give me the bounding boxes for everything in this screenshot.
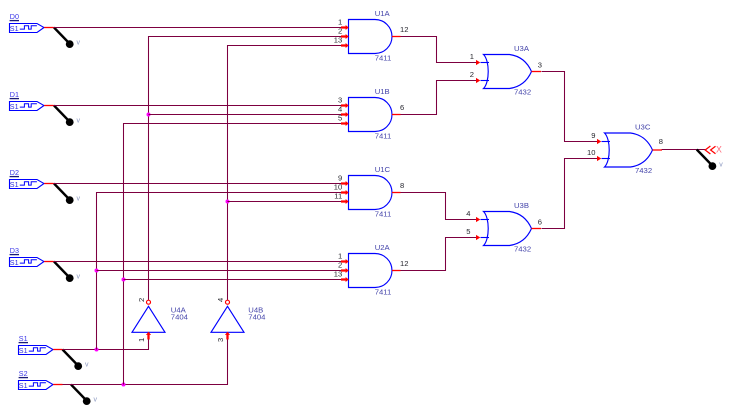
pin stub of D3 (44, 261, 53, 263)
svg-text:12: 12 (400, 259, 408, 268)
svg-text:4: 4 (466, 209, 470, 218)
pin stub of D1 (44, 105, 53, 107)
U1A output pin 12 stub (392, 25, 408, 36)
svg-text:2: 2 (470, 70, 474, 79)
voltage probe v on S1 (63, 350, 90, 371)
svg-text:U3A: U3A (514, 44, 530, 53)
wire U2A output 12 to U3B pin 5 (401, 238, 478, 271)
U1C input pin 11 (334, 192, 348, 205)
U3C input pin 9 lead (602, 141, 611, 143)
svg-text:v: v (85, 362, 89, 369)
svg-text:v: v (77, 274, 81, 281)
svg-text:13: 13 (334, 36, 342, 45)
U3C input pin 10 arrow (587, 148, 601, 161)
wire U3B output 6 to U3C pin 10 (542, 159, 598, 229)
node S2 junction to U2A pin 13 (122, 278, 126, 282)
U1A input pin 2 (338, 27, 349, 40)
U1B output pin 6 stub (392, 103, 404, 114)
pin stub of D2 (44, 183, 53, 185)
svg-text:1: 1 (338, 18, 342, 27)
wire D1 to U1B pin 3 (54, 105, 343, 107)
U1C output pin 8 stub (392, 181, 404, 192)
wire U1A output 12 to U3A pin 1 (401, 37, 478, 63)
svg-text:10: 10 (334, 183, 342, 192)
inverter U4B (7404) body, pointing up (211, 306, 244, 332)
logic source D1 (S1 signal generator symbol) (10, 102, 45, 111)
voltage probe v on X output (697, 150, 724, 171)
svg-text:U3C: U3C (635, 122, 651, 131)
svg-text:2: 2 (338, 261, 342, 270)
U3C output pin 8 stub (653, 137, 664, 150)
svg-text:D1: D1 (10, 90, 19, 99)
svg-text:v: v (77, 196, 81, 203)
svg-text:9: 9 (338, 174, 342, 183)
svg-text:7432: 7432 (635, 166, 652, 175)
U1B input pin 3 (338, 96, 349, 109)
AND gate U1B (7411) body (349, 98, 393, 132)
voltage probe v on D3 (54, 262, 81, 283)
wire S2 vertical riser to U1B pin 5 (124, 124, 343, 385)
svg-text:8: 8 (659, 137, 663, 146)
wire U1C output 8 to U3B pin 4 (401, 193, 478, 220)
svg-text:12: 12 (400, 25, 408, 34)
U3B input pin 5 arrow (466, 227, 480, 240)
svg-text:S1: S1 (19, 334, 28, 343)
svg-text:8: 8 (400, 181, 404, 190)
svg-text:7411: 7411 (375, 287, 392, 296)
wire D2 to U1C pin 9 (54, 183, 343, 185)
svg-text:v: v (719, 162, 723, 169)
svg-text:v: v (77, 40, 81, 47)
svg-text:7404: 7404 (171, 312, 189, 321)
U4B input pin 3 arrow (216, 332, 230, 342)
svg-text:2: 2 (338, 27, 342, 36)
svg-text:7411: 7411 (375, 131, 392, 140)
wire U1B output 6 to U3A pin 2 (401, 81, 478, 115)
AND gate U2A (7411) body (349, 254, 392, 288)
svg-text:11: 11 (334, 192, 342, 201)
wire S1-bar from U4A output up to U1A pin 2 (149, 37, 343, 301)
U2A input pin 13 (334, 270, 349, 283)
wire D0 to U1A pin 1 (54, 27, 343, 29)
U3B output pin 6 stub (532, 218, 543, 229)
svg-text:1: 1 (470, 52, 474, 61)
U3C input pin 10 lead (602, 158, 611, 160)
inverter U4A (7404) body, pointing up (132, 306, 165, 332)
wire S1 branch to U2A pin 2 (97, 270, 343, 272)
U3B input pin 4 lead (481, 219, 490, 221)
node S1 junction to U2A pin 2 (95, 269, 99, 273)
svg-text:v: v (94, 397, 98, 404)
U3A output pin 3 stub (532, 61, 543, 72)
svg-text:U3B: U3B (514, 201, 529, 210)
U3A input pin 2 lead (481, 80, 490, 82)
U3C input pin 9 arrow (591, 131, 601, 144)
logic source D0 (S1 signal generator symbol) (10, 24, 45, 33)
U4A output bubble (147, 300, 151, 304)
AND gate U1C (7411) body (349, 176, 393, 210)
AND gate U1A (7411) body (349, 20, 392, 54)
U1B input pin 4 (338, 105, 349, 118)
wire U3A output 3 to U3C pin 9 (542, 72, 598, 142)
pin stub of S2 (53, 384, 62, 386)
node S1 junction on S1 wire (95, 348, 99, 352)
svg-text:v: v (77, 118, 81, 125)
wire S1 horizontal to U4A input (63, 340, 149, 350)
svg-text:6: 6 (538, 218, 542, 227)
U2A output pin 12 stub (392, 259, 408, 270)
voltage probe v on S2 (71, 385, 98, 406)
pin stub of D0 (44, 27, 53, 29)
svg-text:2: 2 (137, 298, 146, 302)
svg-text:S1: S1 (19, 346, 28, 355)
U3A input pin 2 arrow (470, 70, 481, 83)
svg-text:5: 5 (338, 114, 342, 123)
svg-text:S2: S2 (19, 369, 28, 378)
U3A input pin 1 lead (481, 62, 490, 64)
svg-text:3: 3 (338, 96, 342, 105)
svg-text:U1A: U1A (375, 9, 391, 18)
svg-text:D2: D2 (10, 168, 19, 177)
U1C input pin 9 (338, 174, 349, 187)
voltage probe v on D0 (54, 28, 81, 48)
U1A input pin 13 (334, 36, 349, 49)
svg-text:D0: D0 (10, 12, 19, 21)
U4A input pin 1 arrow (137, 332, 151, 342)
svg-text:S1: S1 (10, 102, 19, 111)
U3A input pin 1 arrow (470, 52, 481, 65)
svg-text:1: 1 (338, 252, 342, 261)
svg-text:3: 3 (538, 61, 542, 70)
wire S2 branch to U2A pin 13 (124, 279, 343, 281)
svg-text:3: 3 (216, 338, 225, 342)
U1C input pin 10 (334, 183, 349, 196)
svg-text:S1: S1 (10, 24, 19, 33)
svg-text:U1C: U1C (375, 165, 391, 174)
svg-text:7411: 7411 (375, 209, 392, 218)
svg-text:S1: S1 (10, 180, 19, 189)
svg-text:6: 6 (400, 103, 404, 112)
svg-text:4: 4 (216, 298, 225, 302)
output connector chevron 2 (711, 146, 716, 154)
svg-text:S1: S1 (19, 381, 28, 390)
U3B input pin 4 arrow (466, 209, 480, 222)
node S2 junction on S2 wire (122, 383, 126, 387)
svg-text:10: 10 (587, 148, 595, 157)
OR gate U3C (7432) body (605, 133, 653, 167)
OR gate U3A (7432) body (484, 55, 532, 89)
logic source S2 (S1 signal generator symbol) (19, 381, 54, 390)
svg-text:4: 4 (338, 105, 342, 114)
pin stub of S1 (53, 349, 62, 351)
wire S1-bar branch to U1B pin 4 (149, 114, 343, 116)
OR gate U3B (7432) body (484, 212, 532, 246)
voltage probe v on D2 (54, 184, 81, 205)
logic source D2 (S1 signal generator symbol) (10, 180, 45, 189)
logic source D3 (S1 signal generator symbol) (10, 258, 45, 267)
wire U3C output 8 to connector X (662, 149, 707, 151)
node S1-bar junction to U1B pin 4 (147, 113, 151, 117)
svg-text:U2A: U2A (375, 243, 391, 252)
logic source S1 (S1 signal generator symbol) (19, 346, 54, 355)
svg-text:X: X (716, 144, 722, 154)
svg-text:U1B: U1B (375, 87, 390, 96)
svg-text:7432: 7432 (514, 245, 531, 254)
svg-text:7432: 7432 (514, 88, 531, 97)
U3B input pin 5 lead (481, 237, 490, 239)
svg-text:S1: S1 (10, 258, 19, 267)
U2A input pin 1 (338, 252, 349, 265)
U4B output bubble (226, 300, 230, 304)
wire S1 vertical riser to U1C pin 10 (97, 193, 343, 350)
U1B input pin 5 (338, 114, 349, 127)
U2A input pin 2 (338, 261, 349, 274)
wire S2 horizontal to U4B input (63, 340, 228, 385)
wire D3 to U2A pin 1 (54, 261, 343, 263)
svg-text:13: 13 (334, 270, 342, 279)
svg-text:D3: D3 (10, 246, 19, 255)
output connector chevron 1 (705, 146, 710, 154)
node S2-bar junction to U1C pin 11 (226, 200, 230, 204)
wire S2-bar branch to U1C pin 11 (228, 201, 343, 203)
svg-text:9: 9 (591, 131, 595, 140)
svg-text:5: 5 (466, 227, 470, 236)
voltage probe v on D1 (54, 106, 81, 127)
svg-text:7411: 7411 (375, 53, 392, 62)
svg-text:7404: 7404 (248, 312, 266, 321)
svg-text:1: 1 (137, 338, 146, 342)
U1A input pin 1 (338, 18, 349, 31)
wire S2-bar from U4B output up to U1A pin 13 (228, 46, 343, 301)
